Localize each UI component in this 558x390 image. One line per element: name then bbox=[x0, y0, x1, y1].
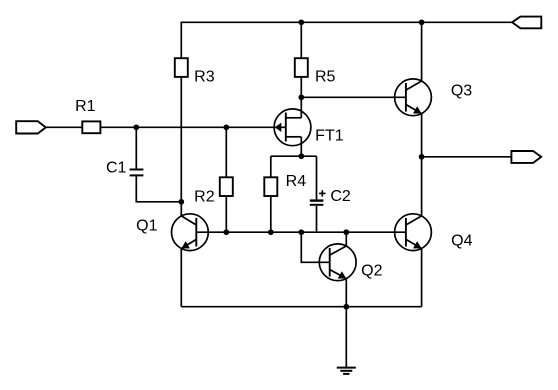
svg-text:C2: C2 bbox=[330, 188, 351, 205]
svg-text:R4: R4 bbox=[286, 173, 307, 190]
svg-text:Q4: Q4 bbox=[451, 233, 472, 250]
svg-text:R2: R2 bbox=[194, 189, 215, 206]
svg-text:Q1: Q1 bbox=[136, 218, 157, 235]
svg-text:Q3: Q3 bbox=[451, 83, 472, 100]
svg-text:FT1: FT1 bbox=[315, 128, 344, 145]
svg-text:R1: R1 bbox=[75, 98, 96, 115]
svg-text:R5: R5 bbox=[315, 69, 336, 86]
svg-text:Q2: Q2 bbox=[361, 263, 382, 280]
svg-text:R3: R3 bbox=[194, 69, 215, 86]
svg-text:C1: C1 bbox=[106, 159, 127, 176]
